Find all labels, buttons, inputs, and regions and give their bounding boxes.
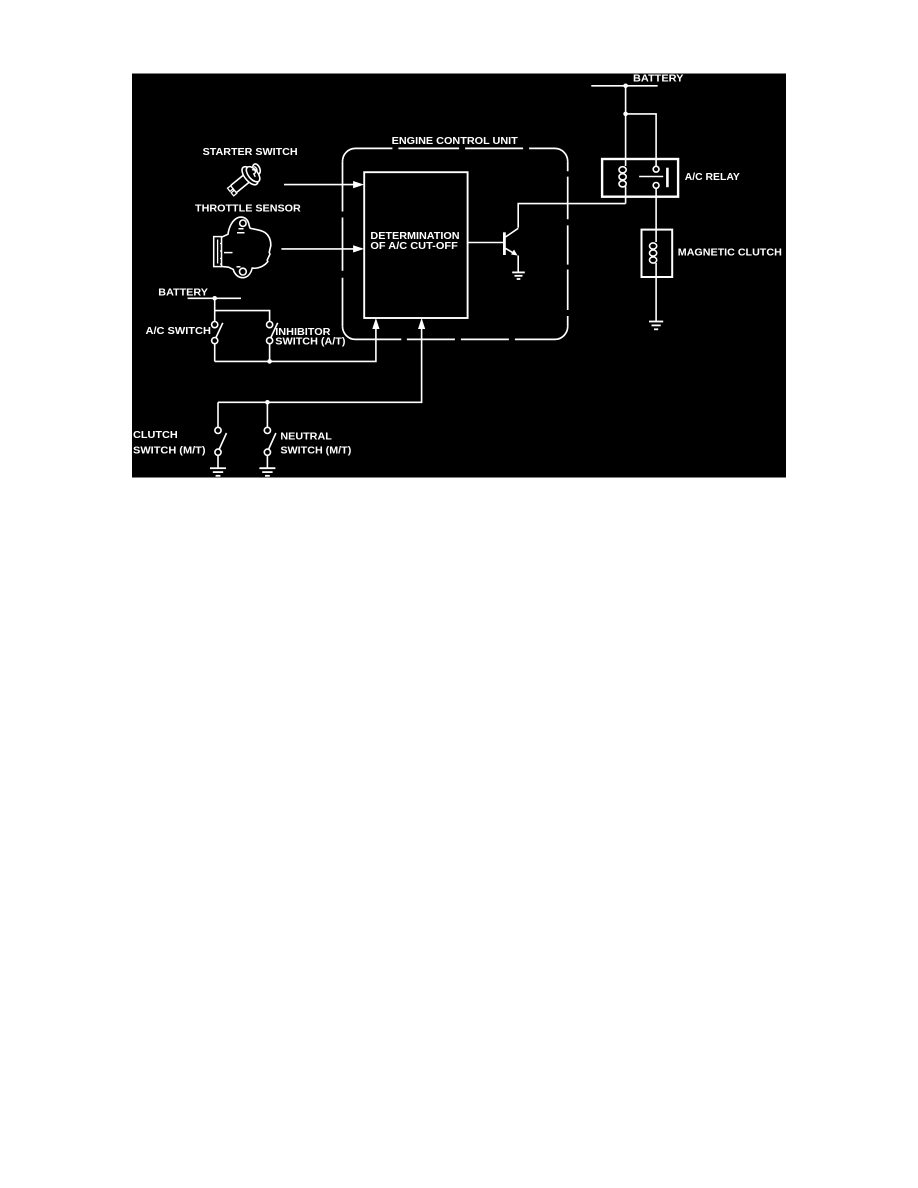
wire battery bus (top-right) — [591, 85, 657, 87]
relay armature — [639, 176, 663, 178]
wire relay coil to transistor collector — [518, 204, 625, 228]
svg-text:CLUTCH: CLUTCH — [133, 429, 178, 441]
svg-text:SWITCH (M/T): SWITCH (M/T) — [280, 444, 351, 456]
relay K1 A/C RELAY box — [602, 159, 678, 197]
wire ECU block to transistor base — [468, 242, 504, 244]
ECU boundary (dashed rounded rect) — [343, 148, 568, 339]
junction — [623, 84, 628, 89]
relay armature bar — [666, 168, 669, 188]
ground (magnetic clutch) — [649, 322, 663, 330]
wire battery to junction — [625, 86, 627, 114]
throttle sensor bolt (top) — [240, 220, 246, 226]
magnetic clutch coil — [650, 230, 657, 277]
svg-text:BATTERY: BATTERY — [633, 72, 683, 84]
svg-text:MAGNETIC CLUTCH: MAGNETIC CLUTCH — [678, 247, 782, 259]
svg-text:BATTERY: BATTERY — [158, 287, 208, 299]
wire to A/C switch — [214, 311, 216, 322]
svg-text:STARTER SWITCH: STARTER SWITCH — [203, 146, 298, 158]
junction — [265, 400, 270, 405]
svg-text:NEUTRAL: NEUTRAL — [280, 430, 332, 442]
junction — [267, 359, 272, 364]
ground (clutch switch) — [210, 468, 226, 476]
svg-text:OF A/C CUT-OFF: OF A/C CUT-OFF — [370, 240, 458, 252]
throttle sensor connector — [214, 237, 222, 267]
magnetic clutch box — [642, 230, 673, 277]
svg-text:SWITCH (A/T): SWITCH (A/T) — [275, 336, 345, 348]
wire clutch/neutral bus to ECU input 2 — [218, 322, 422, 403]
relay coil — [619, 167, 626, 187]
starter switch icon — [223, 162, 263, 200]
junction — [212, 296, 217, 301]
svg-text:ENGINE CONTROL UNIT: ENGINE CONTROL UNIT — [392, 135, 519, 147]
throttle sensor icon — [214, 217, 271, 278]
switch INHIBITOR SWITCH (A/T) — [267, 322, 278, 362]
wire starter switch to ECU (arrow) — [284, 184, 360, 186]
diagram background panel — [132, 74, 786, 478]
wire junction to relay contact branch — [626, 114, 657, 166]
svg-text:SWITCH (M/T): SWITCH (M/T) — [133, 444, 206, 456]
svg-text:A/C RELAY: A/C RELAY — [685, 171, 740, 183]
switch CLUTCH SWITCH (M/T) — [215, 402, 227, 468]
transistor Q1 — [504, 228, 518, 272]
wire relay contact to magnetic clutch — [655, 188, 657, 229]
ground (neutral switch) — [259, 468, 275, 476]
wire junction to relay coil branch — [625, 114, 627, 166]
wire magnetic clutch to ground — [655, 277, 657, 322]
switch A/C SWITCH — [212, 322, 223, 362]
wire battery to switches — [214, 298, 216, 310]
wire relay coil continues down — [625, 187, 627, 204]
block DETERMINATION OF A/C CUT-OFF — [364, 172, 467, 318]
relay contact pin bottom — [653, 183, 659, 189]
throttle sensor detail marks — [237, 229, 245, 233]
wire battery bus (left) — [188, 297, 241, 299]
wire switches to ECU input 1 — [215, 322, 376, 362]
svg-text:THROTTLE SENSOR: THROTTLE SENSOR — [195, 202, 301, 214]
wire throttle sensor to ECU (arrow) — [281, 248, 360, 250]
switch NEUTRAL SWITCH (M/T) — [264, 402, 276, 468]
wire to inhibitor switch — [215, 311, 270, 322]
ground (transistor emitter) — [512, 272, 525, 279]
svg-text:A/C SWITCH: A/C SWITCH — [146, 325, 211, 337]
throttle sensor bolt (bottom) — [240, 268, 247, 275]
relay contact pin top — [653, 166, 659, 172]
junction — [623, 112, 628, 117]
